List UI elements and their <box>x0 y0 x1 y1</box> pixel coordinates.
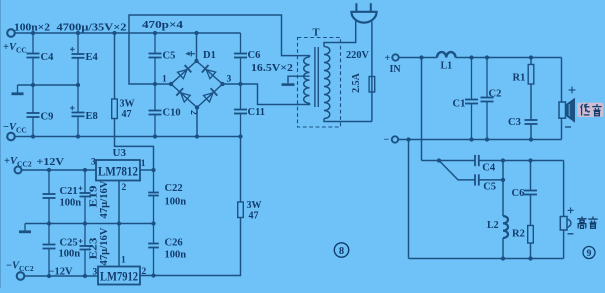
capacitor C6 (crossover) <box>530 161 532 191</box>
svg-text:L2: L2 <box>487 220 499 231</box>
wire bridge pin3 to transformer secondary bottom <box>223 84 310 105</box>
svg-text:−: − <box>384 135 390 146</box>
inductor L2 <box>503 216 508 238</box>
junction dots on top rail <box>31 31 35 35</box>
capacitor C2 <box>486 58 488 98</box>
wire tweeter bottom rail <box>409 258 564 260</box>
wire tweeter feed from top rail <box>421 58 423 161</box>
capacitor C5 (crossover) <box>474 174 476 185</box>
capacitor C4 <box>32 33 34 54</box>
IC U4 LM7912 <box>98 267 140 285</box>
svg-text:2.5A: 2.5A <box>351 72 362 93</box>
svg-text:47: 47 <box>122 109 132 120</box>
wire C5 diagonal branch <box>439 161 475 180</box>
node -Vcc2 terminal <box>17 272 25 280</box>
bridge rectifier D1 frame <box>171 61 197 84</box>
svg-text:47: 47 <box>249 211 259 222</box>
svg-text:1: 1 <box>141 159 146 169</box>
wire 7812 pin1 <box>140 169 154 171</box>
label woofer (diyin) <box>577 103 603 117</box>
svg-text:470p×4: 470p×4 <box>142 20 184 31</box>
wire 7912 pin2 <box>151 273 155 277</box>
transformer center tap wire <box>288 76 310 83</box>
node +Vcc2 terminal <box>15 167 22 174</box>
svg-text:100n: 100n <box>165 250 187 261</box>
svg-text:1: 1 <box>121 256 126 266</box>
wire tweeter feed down <box>563 161 565 217</box>
svg-text:3: 3 <box>91 158 96 168</box>
svg-text:+12V: +12V <box>37 157 65 168</box>
label + (tweeter) <box>568 209 574 211</box>
svg-text:C9: C9 <box>41 112 54 123</box>
svg-text:3W: 3W <box>247 200 262 211</box>
svg-text:2: 2 <box>142 267 147 277</box>
inductor L1 <box>437 52 456 57</box>
diode D1b (AC2 to +) <box>206 70 216 79</box>
svg-text:1: 1 <box>162 75 167 85</box>
svg-text:C22: C22 <box>165 183 183 194</box>
capacitor C6 <box>240 33 242 54</box>
label - (tweeter) <box>568 233 574 235</box>
capacitor C1 <box>471 58 473 100</box>
transformer T primary winding <box>324 47 330 119</box>
capacitor E19 <box>84 170 86 193</box>
label - (woofer) <box>565 126 571 128</box>
capacitor E4 <box>77 33 79 54</box>
svg-text:100n: 100n <box>59 249 81 260</box>
label + (bridge output polarity) <box>187 53 196 55</box>
wire +Vcc top rail <box>15 32 241 34</box>
resistor 3W 47 (left bleeder to U3 input) <box>114 33 116 99</box>
svg-text:C5: C5 <box>163 51 176 62</box>
svg-text:C4: C4 <box>41 52 55 63</box>
svg-text:C4: C4 <box>482 163 496 174</box>
wire L2 to bottom <box>502 238 504 259</box>
wire plug right lead <box>371 22 373 122</box>
wire C4 branch <box>422 160 476 162</box>
capacitor C25 <box>48 224 50 245</box>
svg-text:2: 2 <box>188 110 198 115</box>
svg-text:D1: D1 <box>203 50 216 61</box>
wire crossover bottom rail <box>398 139 561 141</box>
speaker LS2 (tweeter) <box>560 217 567 231</box>
ground (transformer center tap) <box>282 83 295 86</box>
junction dot C4/C5 split <box>437 158 441 162</box>
svg-text:2: 2 <box>122 183 127 193</box>
svg-text:+: + <box>385 53 391 64</box>
capacitor E23 <box>84 224 86 247</box>
capacitor C5 <box>154 33 156 54</box>
label + (woofer) <box>569 89 576 91</box>
wire -Vcc rail down to 3W resistor (U4 input feed) <box>240 137 242 203</box>
svg-text:E8: E8 <box>86 111 98 122</box>
ground (lower) <box>24 224 26 231</box>
svg-text:C6: C6 <box>248 50 261 61</box>
wire bridge pin1 to transformer secondary top <box>129 15 310 84</box>
junction dot pin1/C5 column <box>153 82 157 86</box>
svg-text:47μ/16V: 47μ/16V <box>99 180 110 219</box>
diode D1a (AC1 to +) <box>178 70 188 79</box>
mains plug <box>351 12 376 23</box>
junction dots bottom rail <box>406 137 410 141</box>
svg-text:C3: C3 <box>508 117 521 128</box>
svg-text:LM7812: LM7812 <box>98 164 138 179</box>
wire 7812 pin2 to ground rail <box>118 181 120 224</box>
node -IN terminal <box>392 136 398 142</box>
svg-text:16.5V×2: 16.5V×2 <box>251 63 293 74</box>
junction dot pin3/C6 column <box>238 82 242 86</box>
wire bridge + output to top rail <box>196 33 198 61</box>
junction dots on -Vcc rail <box>31 134 35 138</box>
svg-text:IN: IN <box>390 64 402 75</box>
svg-text:C2: C2 <box>489 89 502 100</box>
capacitor C11 <box>240 84 242 110</box>
bridge vertex dots <box>194 59 198 63</box>
label tweeter (gaoyin) <box>577 217 586 229</box>
wire -IN down to tweeter rail <box>408 140 410 259</box>
wire -Vcc bottom rail <box>15 136 241 138</box>
diode D1c (- to AC1) <box>181 93 191 102</box>
wire primary bottom to fuse <box>324 119 372 122</box>
wire +12V rail <box>22 169 97 171</box>
svg-text:220V: 220V <box>346 49 369 61</box>
svg-text:L1: L1 <box>441 61 453 72</box>
node +Vcc terminal <box>7 29 15 37</box>
svg-text:100n: 100n <box>60 198 82 209</box>
svg-text:C6: C6 <box>512 188 525 199</box>
wire lower ground rail <box>25 223 154 225</box>
node +IN terminal <box>392 54 398 60</box>
svg-text:T: T <box>313 28 320 39</box>
transformer T secondary winding <box>304 57 310 103</box>
svg-text:U3: U3 <box>113 147 127 159</box>
fuse 2.5A <box>369 77 375 93</box>
IC U3 LM7812 <box>96 160 140 181</box>
wire tweeter top rail <box>503 160 564 162</box>
svg-text:100n: 100n <box>165 197 187 208</box>
node -Vcc terminal <box>7 133 15 141</box>
page left edge shading <box>0 0 1 288</box>
capacitor C22 <box>153 170 155 193</box>
svg-text:8: 8 <box>339 246 344 257</box>
capacitor C3 <box>525 119 538 121</box>
wire -12V rail <box>24 275 98 277</box>
wire woofer feed <box>561 58 563 103</box>
wire crossover top rail <box>399 57 437 59</box>
svg-text:C10: C10 <box>163 108 181 119</box>
svg-text:C26: C26 <box>165 238 183 249</box>
wire tweeter mid column <box>502 161 504 217</box>
wire bridge - output to bottom rail <box>196 108 198 137</box>
capacitor C21 <box>48 170 50 194</box>
svg-text:C5: C5 <box>483 182 496 193</box>
svg-text:C25: C25 <box>60 238 78 249</box>
transformer T dashed box <box>298 38 341 128</box>
svg-text:R1: R1 <box>513 73 526 84</box>
wire 7912 pin1 to ground rail <box>118 224 120 267</box>
capacitor C26 <box>153 224 155 244</box>
capacitor C9 <box>32 85 34 113</box>
svg-text:C1: C1 <box>453 99 466 110</box>
svg-text:C21: C21 <box>60 186 78 197</box>
svg-text:R2: R2 <box>512 229 525 240</box>
resistor R1 <box>530 58 532 65</box>
svg-text:3: 3 <box>227 75 232 85</box>
capacitor C4 (crossover) <box>474 155 476 166</box>
wire primary top to plug <box>324 21 356 47</box>
capacitor E8 <box>77 85 79 113</box>
capacitor C10 <box>154 84 156 111</box>
transformer core <box>314 47 316 107</box>
svg-text:3W: 3W <box>120 99 135 110</box>
svg-text:LM7912: LM7912 <box>100 269 138 284</box>
wire C5 to node <box>479 179 503 181</box>
svg-text:E4: E4 <box>86 52 99 63</box>
diode D1d (- to AC2) <box>204 93 214 102</box>
speaker LS1 (woofer) <box>559 102 566 118</box>
resistor R2 <box>528 226 534 244</box>
label circled 9 <box>583 247 595 259</box>
label circled 8 <box>334 243 348 257</box>
svg-text:47μ/16V: 47μ/16V <box>99 227 110 266</box>
svg-text:C11: C11 <box>248 107 266 118</box>
resistor 3W 47 (right, to LM7912 input) <box>238 202 244 218</box>
svg-text:9: 9 <box>587 249 592 259</box>
junction dots top rail <box>419 55 423 59</box>
wire ground rail upper <box>18 84 79 86</box>
ground (upper) <box>17 85 19 93</box>
